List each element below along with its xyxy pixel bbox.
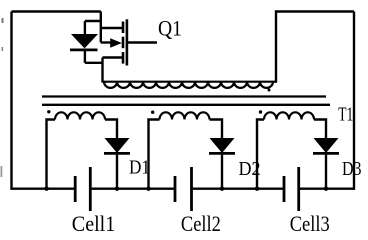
svg-text:Q1: Q1 [158,16,182,41]
diode anode stub [84,21,86,35]
wire gate lead [127,41,157,43]
polarity dot secondary 1 [47,110,50,113]
transistor Q1 [103,19,158,65]
polarity dot primary [268,89,271,92]
wire diode top horizontal [85,20,101,22]
polarity dot secondary 2 [151,111,154,114]
battery Cell3 [284,167,299,211]
svg-text:D2: D2 [239,158,261,180]
wire bottom bus segment 3 [193,187,283,189]
secondary winding 2 [149,112,223,188]
svg-text:Cell3: Cell3 [290,211,330,236]
wire body lead [101,41,112,43]
battery Cell2 [175,167,192,211]
gate bar [126,19,129,65]
wire right bus [353,12,355,190]
wire drain lead [101,27,122,29]
wire source lead [103,56,123,58]
channel segment source [122,52,125,64]
junction node D1 bottom [115,187,119,191]
junction node winding2 bottom [146,187,150,191]
wire primary to top right [276,12,354,83]
junction node winding1 bottom [44,187,48,191]
diode D1 [104,138,130,190]
wire source down to primary [101,58,103,83]
diode triangle [71,34,98,48]
wire bottom bus segment 2 [92,187,174,189]
svg-text:Cell1: Cell1 [72,211,116,236]
junction node D3 bottom [324,187,328,191]
wire left bus [10,12,12,190]
scan speck left edge 3 [1,166,3,177]
diode D3 [313,138,339,190]
diode D2 [209,138,235,190]
diode cathode bar [70,49,98,52]
channel segment drain [122,22,125,34]
wire bottom bus segment 1 [12,187,75,189]
channel segment body [122,37,125,49]
wire stem from top wire down to drain/body [100,12,102,43]
svg-text:D1: D1 [129,157,150,179]
scan speck left edge 1 [2,18,4,23]
body diode of Q1 [70,21,103,63]
secondary winding 3 [257,112,326,188]
svg-text:T1: T1 [338,104,353,126]
transformer core line 2 [42,104,330,106]
wire diode bottom horizontal [85,62,103,64]
polarity dot secondary 3 [259,110,262,113]
transformer T1 primary winding [102,82,277,88]
svg-text:Cell2: Cell2 [181,211,221,236]
junction node D2 bottom [220,187,224,191]
secondary winding 1 [47,112,118,188]
svg-text:D3: D3 [342,158,362,180]
junction node winding3 bottom [255,187,259,191]
body arrow [110,38,122,47]
wire top [12,10,101,12]
battery Cell1 [75,167,90,211]
diode cathode stub [84,51,86,63]
wire bottom bus segment 4 [300,187,354,189]
transformer core line 1 [42,95,326,97]
scan speck left edge 2 [2,47,4,51]
